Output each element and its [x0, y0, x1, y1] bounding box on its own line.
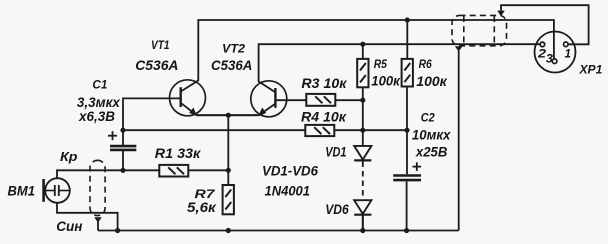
svg-text:R6: R6: [419, 57, 432, 71]
svg-text:ВМ1: ВМ1: [8, 182, 36, 198]
svg-text:100к: 100к: [371, 72, 400, 88]
svg-text:1: 1: [565, 47, 572, 61]
svg-text:5,6к: 5,6к: [187, 199, 217, 215]
svg-text:Син: Син: [56, 218, 83, 234]
svg-text:XP1: XP1: [579, 62, 603, 76]
svg-text:3: 3: [546, 52, 553, 66]
svg-text:R3 10к: R3 10к: [301, 76, 347, 91]
svg-text:C1: C1: [92, 78, 107, 92]
svg-text:100к: 100к: [416, 73, 447, 89]
svg-text:VD1: VD1: [325, 145, 346, 160]
svg-text:1N4001: 1N4001: [265, 182, 311, 198]
svg-text:C2: C2: [421, 111, 435, 125]
svg-text:2: 2: [537, 47, 546, 61]
svg-text:VD6: VD6: [325, 202, 349, 217]
svg-text:R4 10к: R4 10к: [301, 110, 347, 125]
svg-text:С536А: С536А: [211, 57, 252, 73]
svg-text:VT1: VT1: [151, 38, 170, 52]
svg-text:10мкх: 10мкх: [412, 126, 452, 142]
svg-text:R5: R5: [374, 57, 387, 71]
svg-text:С536А: С536А: [135, 57, 178, 73]
svg-text:х6,3В: х6,3В: [78, 108, 115, 124]
svg-text:Кр: Кр: [60, 149, 78, 164]
svg-text:VD1-VD6: VD1-VD6: [262, 164, 318, 179]
svg-text:R1 33к: R1 33к: [155, 146, 202, 161]
svg-text:х25В: х25В: [415, 144, 447, 160]
svg-text:VT2: VT2: [222, 42, 245, 56]
